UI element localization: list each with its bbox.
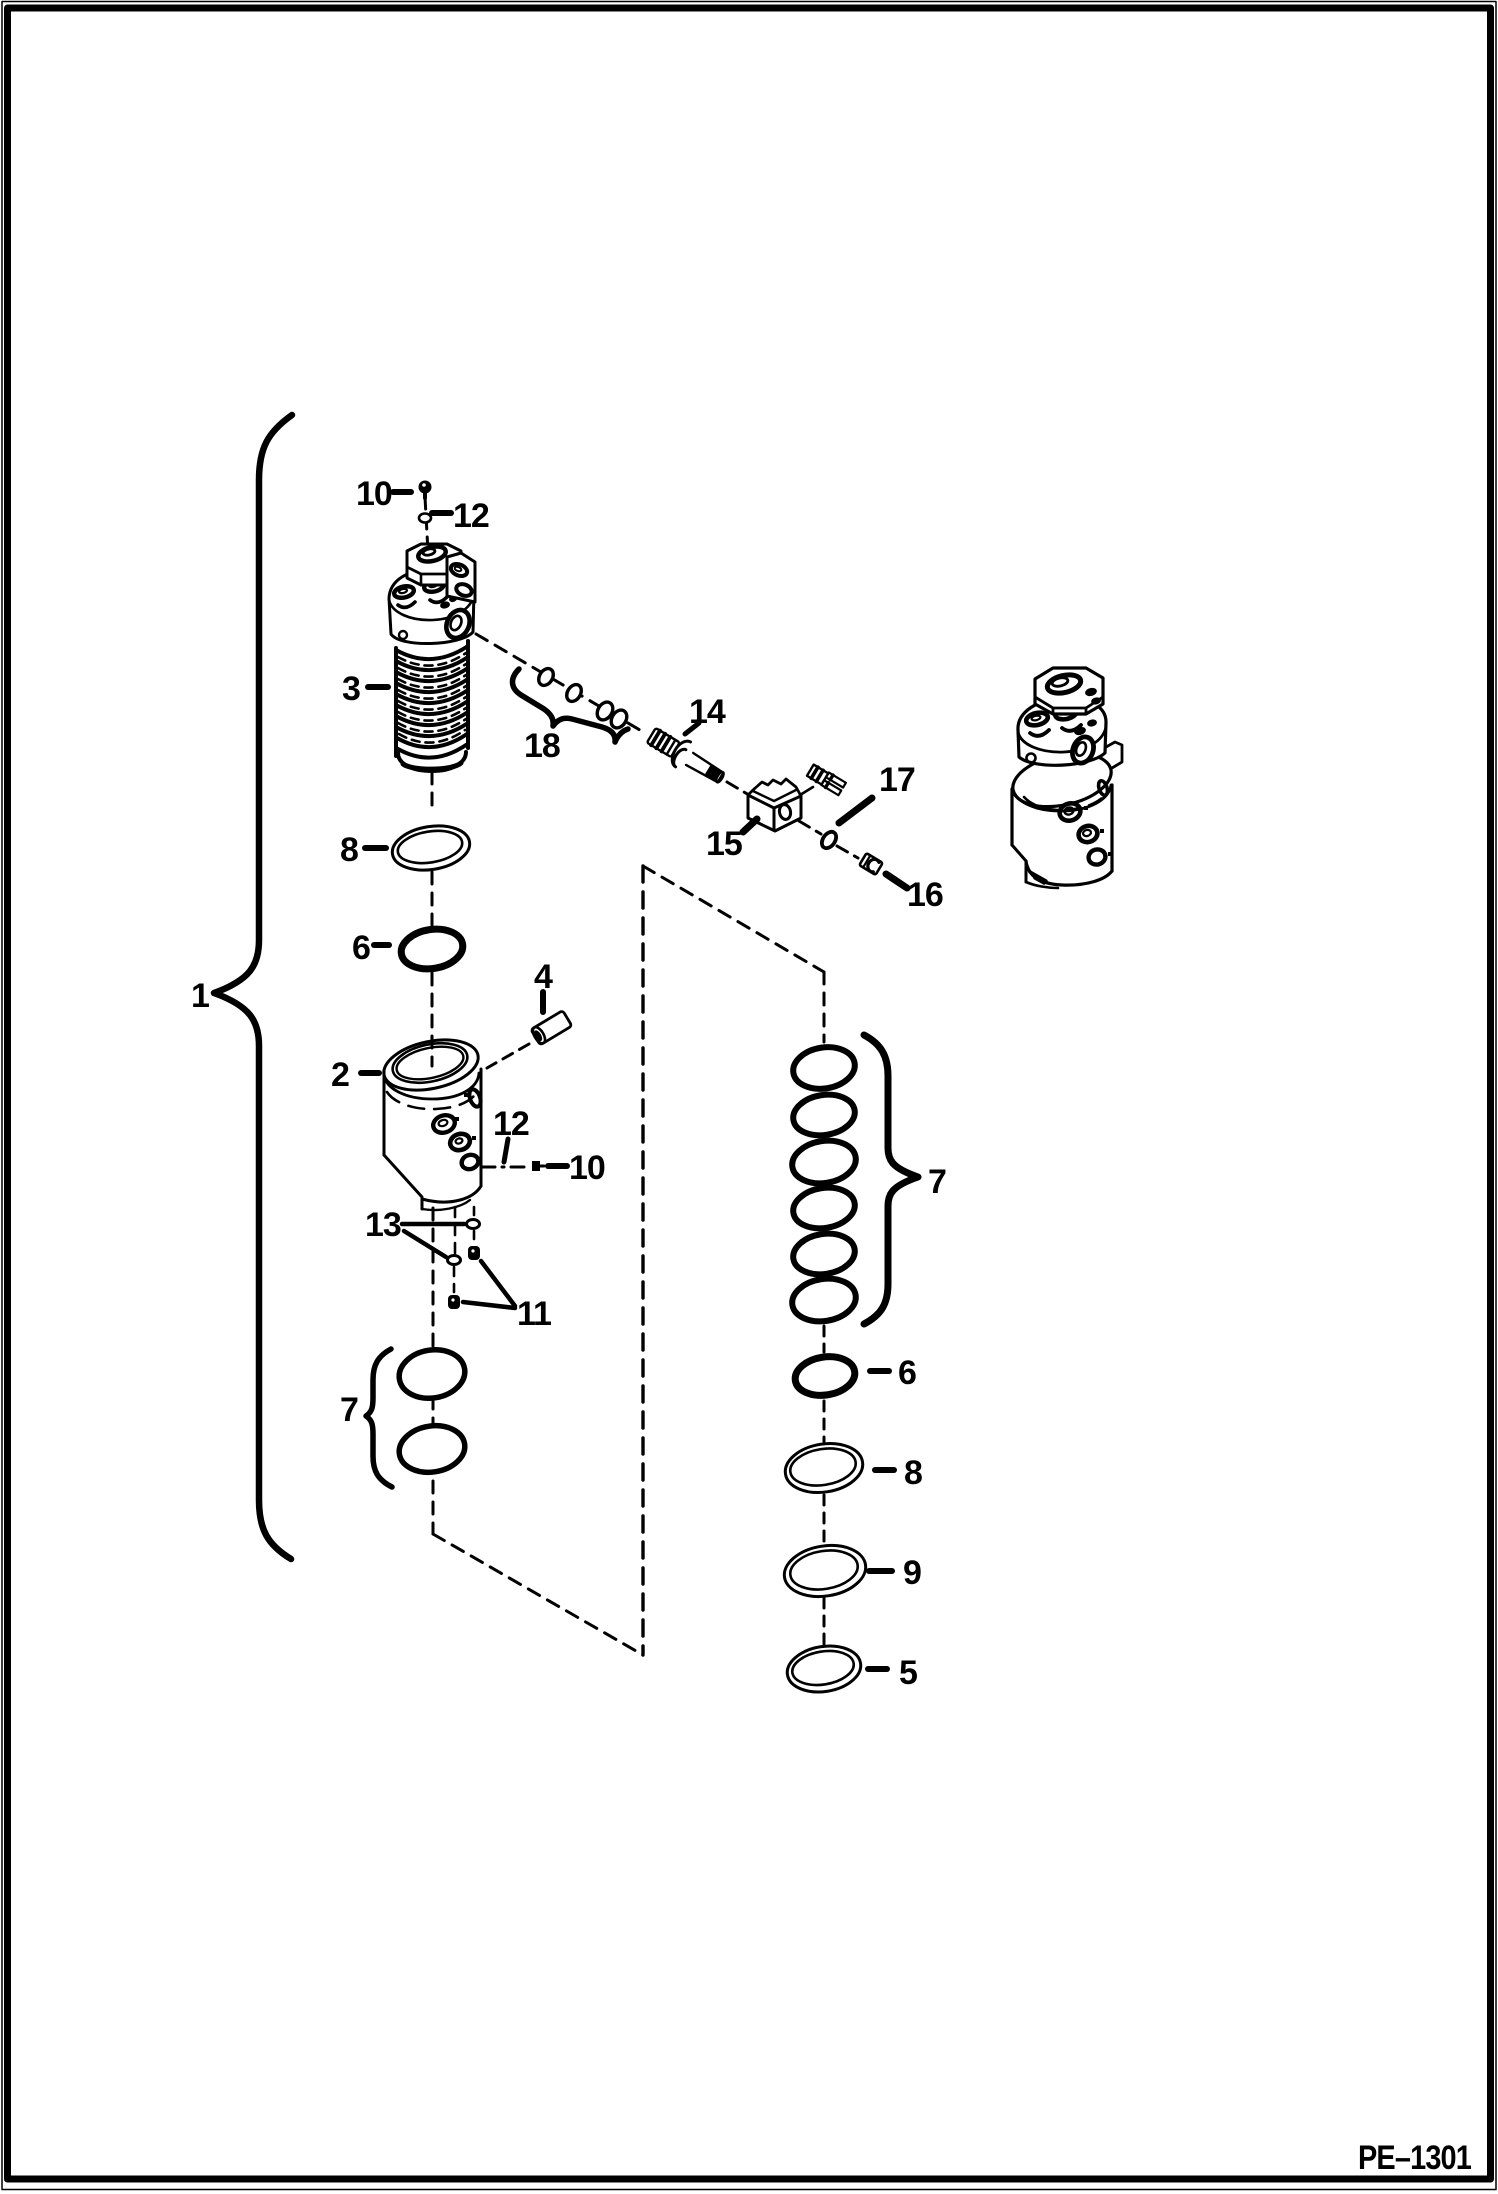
centerline coil bottom to ring8 [431,772,434,806]
label 12 top [432,497,489,535]
o-ring 7 stack 5 [790,1229,857,1278]
label 5 right [868,1654,917,1692]
svg-text:12: 12 [453,497,489,535]
leader line block 15 to connector [800,787,813,795]
assembled swivel hex nut [1035,668,1103,714]
svg-text:7: 7 [340,1391,358,1429]
washer 13a [467,1220,480,1229]
label 16 [886,874,943,914]
assembled swivel body [1012,765,1112,888]
o-ring 7 stack 1 [790,1043,858,1093]
svg-text:8: 8 [340,831,358,869]
label 12 bottom [493,1105,529,1162]
o-ring 12 top [419,514,431,523]
centerline body2 mid short [454,1207,457,1253]
main diagonal axis head to part14 [476,634,645,733]
label 3 [342,670,388,708]
label 15 [706,819,757,863]
svg-text:3: 3 [342,670,360,708]
svg-text:9: 9 [903,1554,921,1592]
spool head hex nut [407,544,461,585]
o-ring 18a [536,666,557,688]
svg-text:5: 5 [899,1654,917,1692]
svg-text:18: 18 [524,727,560,765]
leader lines 13 [402,1224,464,1257]
svg-text:17: 17 [879,761,915,799]
ring 9 right [781,1540,870,1602]
label 17 [839,761,915,823]
dash-dot line to screw 10 bottom [482,1166,529,1169]
centerline washer13b to screw11b [453,1267,456,1292]
spool coil bottom cap [398,752,466,771]
screw 11a [468,1246,480,1260]
label 18 [524,727,560,765]
label 14 [685,693,726,734]
solenoid block 15 [748,779,801,831]
axis plug4 to body2 [487,1044,529,1068]
svg-text:6: 6 [898,1354,916,1392]
curly brace 7 left [366,1349,392,1487]
parallelogram bottom diagonal dashed [433,1534,643,1655]
svg-text:12: 12 [493,1105,529,1143]
svg-text:13: 13 [365,1206,401,1244]
svg-text:2: 2 [331,1056,349,1094]
label 8 left [340,831,386,869]
centerline ring8 to ring6 [431,872,434,926]
centerline ring9 to ring5 right [823,1598,826,1646]
o-ring 6 right [792,1353,857,1400]
label 8 right [875,1454,922,1492]
screw 10 top [419,481,432,499]
svg-text:6: 6 [352,929,370,967]
body 2 ports [431,1088,483,1171]
o-ring 7 left lower [396,1421,468,1477]
svg-text:8: 8 [904,1454,922,1492]
label 1 [191,977,209,1015]
spool coil 3 ribs [396,641,468,758]
centerline washer13a to screw11a [473,1231,476,1243]
label 6 right [870,1354,916,1392]
label 7 right [928,1163,946,1201]
assembled swivel rim [1008,745,1116,815]
label 10 top [356,475,411,513]
centerline ring6 to ring8 right [823,1401,826,1442]
rotated bracket 18 [512,669,628,742]
curly brace 7 right [864,1035,918,1324]
label 6 left [352,929,389,967]
centerline ring6 to body2 [431,973,434,1066]
svg-text:PE–1301: PE–1301 [1358,2139,1471,2177]
svg-text:16: 16 [907,876,943,914]
o-ring 7 stack 2 [790,1090,857,1139]
centerline ring8 to ring9 right [823,1495,826,1546]
body 2 cylinder [384,1069,481,1210]
svg-text:10: 10 [569,1149,605,1187]
screw 11b [448,1295,460,1309]
leader lines 11 [463,1261,515,1308]
label 10 bottom [548,1149,605,1187]
plug 4 [531,1010,572,1045]
label 2 [331,1056,379,1094]
centerline body2 right short [473,1207,476,1218]
centerline to ring stack top [823,972,826,1042]
o-ring 7 stack 3 [789,1136,859,1187]
centerline body2 bottom left long [432,1208,435,1534]
o-ring 18d [608,707,630,731]
parallelogram right vertical dashed [641,866,644,1655]
spool head body [389,569,474,644]
ring 5 right [784,1641,864,1697]
o-ring 7 left upper [396,1345,469,1403]
assembled swivel head [1018,698,1106,766]
label 7 left [340,1391,358,1429]
parallelogram top diagonal dashed [643,866,824,972]
o-ring 18c [594,699,616,723]
label 13 [365,1206,401,1244]
screw 10 bottom [532,1161,544,1171]
assembled swivel body ports [1058,780,1112,867]
centerline stack7 to ring6 right [823,1326,826,1352]
svg-text:7: 7 [928,1163,946,1201]
valve spool 14 [644,723,730,791]
o-ring 7 stack 6 [789,1274,859,1325]
axis oring17 to nut16 [837,846,858,858]
big curly brace 1 [214,415,292,1559]
o-ring 17 [819,829,839,851]
label 9 right [869,1554,921,1592]
svg-text:10: 10 [356,475,392,513]
o-ring 8 left [389,821,473,876]
centerline screw10 to hex top [425,497,428,552]
nut 16 [859,853,882,875]
connector on block 15 [807,764,846,795]
svg-text:11: 11 [517,1295,551,1333]
svg-text:1: 1 [191,977,209,1015]
svg-text:15: 15 [706,825,742,863]
axis block15 to oring17 [799,821,821,834]
o-ring 6 left [398,925,465,973]
axis part14 to block15 [727,782,749,795]
o-ring 7 stack 4 [790,1183,857,1232]
spool head side port block [447,553,475,602]
ring 8 right [782,1438,867,1498]
o-ring 18b [564,682,585,704]
label 4 [534,958,553,1012]
washer 13b [448,1256,461,1265]
label 11 [517,1295,551,1333]
spool head front port [442,606,474,641]
assembled swivel right tab [1106,742,1122,768]
body 2 top rim [379,1032,483,1109]
